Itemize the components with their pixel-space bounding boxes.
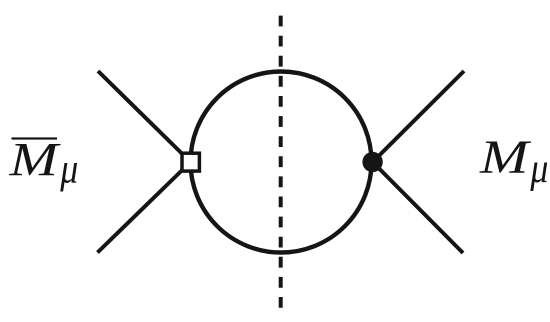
svg-text:μ: μ [59, 146, 78, 192]
svg-text:M: M [8, 134, 61, 187]
svg-text:μ: μ [530, 146, 549, 192]
svg-text:M: M [479, 131, 532, 184]
